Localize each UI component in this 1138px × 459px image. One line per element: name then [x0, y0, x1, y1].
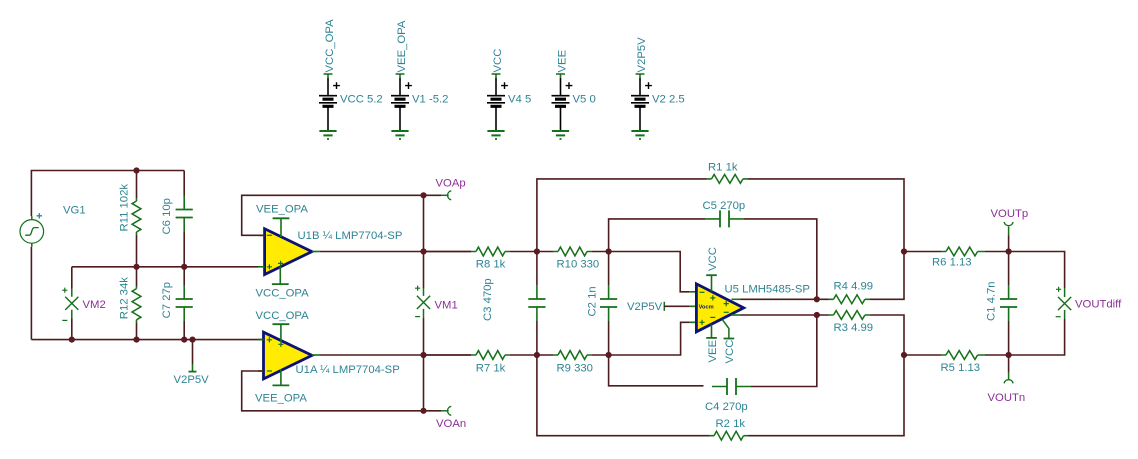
svg-text:VOAn: VOAn — [436, 418, 466, 430]
wire U1B feedback loop — [242, 195, 441, 235]
svg-text:U5 LMH5485-SP: U5 LMH5485-SP — [725, 283, 810, 295]
wire VG1 top to node row T — [31, 171, 184, 217]
fully differential amp U5 LMH5485-SP — [696, 283, 810, 332]
svg-text:R10 330: R10 330 — [557, 259, 600, 271]
U1A VCC_OPA power pin (top) — [256, 310, 310, 342]
svg-text:VEE_OPA: VEE_OPA — [256, 204, 308, 216]
svg-text:VCC_OPA: VCC_OPA — [324, 19, 336, 73]
svg-text:R7 1k: R7 1k — [476, 362, 506, 374]
resistor R12 34k — [118, 267, 141, 340]
wire U5 output+ row — [732, 298, 829, 300]
resistor R7 1k — [424, 351, 537, 375]
terminal V2P5V (bottom left) — [174, 340, 210, 386]
svg-text:VEE: VEE — [557, 49, 569, 72]
op-amp U1A 1/4 LMP7704-SP — [264, 332, 400, 379]
svg-text:V2P5V: V2P5V — [627, 301, 663, 313]
battery V1 (net VEE_OPA) -5.2V — [391, 20, 448, 139]
svg-text:V5 0: V5 0 — [573, 94, 596, 106]
svg-text:R5 1.13: R5 1.13 — [941, 362, 981, 374]
wire U1A output row — [312, 354, 471, 356]
svg-text:VEE: VEE — [707, 339, 719, 362]
wire VM1 column lower — [423, 318, 425, 355]
svg-text:VCC_OPA: VCC_OPA — [256, 288, 310, 300]
wire node D to U5 + input — [609, 322, 689, 355]
resistor R9 330 — [537, 351, 609, 375]
svg-text:VOUTdiff: VOUTdiff — [1075, 299, 1122, 311]
voltage generator VG1 — [20, 205, 86, 247]
svg-text:V1 -5.2: V1 -5.2 — [412, 94, 448, 106]
voltmeter VM1 — [415, 286, 458, 318]
resistor R2 1k (bottom feedback) — [537, 355, 904, 440]
terminal VOAp — [436, 178, 466, 200]
terminal VOUTn — [988, 355, 1026, 404]
junction dots feedback section — [534, 248, 907, 358]
battery V5 (net VEE) 0V — [552, 49, 596, 139]
svg-text:V2P5V: V2P5V — [174, 374, 210, 386]
junction dots op-amp section — [420, 192, 426, 414]
resistor R5 1.13 — [904, 351, 1009, 375]
svg-text:V4 5: V4 5 — [508, 94, 531, 106]
terminal V2P5V (U5 Vocm) — [627, 292, 696, 323]
svg-text:VM1: VM1 — [435, 299, 458, 311]
svg-text:C7 27p: C7 27p — [161, 282, 173, 318]
svg-text:U1A ¼ LMP7704-SP: U1A ¼ LMP7704-SP — [296, 364, 400, 376]
svg-text:VEE_OPA: VEE_OPA — [396, 20, 408, 72]
battery V4 (net VCC) 5V — [487, 49, 531, 139]
svg-text:R1 1k: R1 1k — [708, 162, 738, 174]
svg-text:VOAp: VOAp — [436, 178, 466, 190]
wire VM2 column lower — [71, 319, 73, 340]
resistor R10 330 — [537, 247, 609, 271]
capacitor C5 270p (top feedback) — [609, 200, 817, 299]
wire middle row (to U1B + input) — [72, 266, 258, 268]
battery V2 (net V2P5V) 2.5V — [631, 37, 685, 139]
wire VM2 column upper — [71, 267, 73, 289]
capacitor C4 270p (bottom feedback) — [609, 315, 817, 413]
terminal VOAn — [436, 406, 466, 430]
svg-text:VCC: VCC — [724, 340, 736, 364]
junction dots left section — [69, 167, 196, 342]
resistor R4 4.99 — [829, 252, 905, 304]
svg-text:R3 4.99: R3 4.99 — [834, 322, 874, 334]
terminal VOUTp — [991, 208, 1029, 252]
U1A input pin stubs — [258, 340, 264, 371]
voltmeter VM2 — [62, 288, 106, 321]
svg-text:VM2: VM2 — [83, 299, 106, 311]
svg-text:R6 1.13: R6 1.13 — [932, 256, 972, 268]
svg-text:V2P5V: V2P5V — [636, 37, 648, 73]
U5 VEE power pin (bottom) — [706, 324, 719, 362]
svg-text:VCC: VCC — [492, 49, 504, 73]
junction dots output section — [1006, 248, 1012, 358]
U1B VCC_OPA power pin (bottom) — [256, 266, 310, 299]
svg-text:R2 1k: R2 1k — [716, 418, 746, 430]
svg-text:VG1: VG1 — [63, 205, 86, 217]
U5 VCC power pin (top) — [706, 247, 719, 291]
wire VG1 bottom to bottom rail — [30, 247, 32, 340]
capacitor C1 4.7n — [986, 252, 1018, 356]
svg-text:VCC: VCC — [707, 247, 719, 271]
capacitor C2 1n — [587, 252, 618, 356]
svg-text:R12 34k: R12 34k — [118, 277, 130, 319]
wire U1B output row — [312, 251, 471, 253]
resistor R3 4.99 — [829, 311, 905, 355]
wire VM1 column upper — [423, 195, 425, 288]
svg-text:C3 470p: C3 470p — [482, 278, 494, 321]
battery VCC (net VCC_OPA) 5.2V — [319, 19, 383, 139]
capacitor C3 470p — [482, 252, 546, 356]
wire node B to U5 - input — [609, 252, 689, 292]
svg-text:VEE_OPA: VEE_OPA — [255, 393, 307, 405]
U1B VEE_OPA power pin (top) — [256, 204, 308, 238]
svg-text:C6 10p: C6 10p — [161, 198, 173, 234]
svg-text:C4 270p: C4 270p — [705, 401, 748, 413]
U1A VEE_OPA power pin (bottom) — [255, 370, 307, 405]
wire U1A output node to feedback row — [423, 355, 425, 411]
wire bottom rail — [31, 339, 263, 341]
capacitor C7 27p — [161, 267, 193, 340]
svg-text:C2 1n: C2 1n — [587, 286, 599, 316]
svg-text:VCC 5.2: VCC 5.2 — [340, 94, 383, 106]
svg-text:VCC_OPA: VCC_OPA — [256, 310, 310, 322]
capacitor C6 10p — [161, 171, 193, 267]
svg-text:R9 330: R9 330 — [557, 362, 593, 374]
svg-text:U1B ¼ LMP7704-SP: U1B ¼ LMP7704-SP — [298, 230, 403, 242]
svg-text:VOUTp: VOUTp — [991, 208, 1029, 220]
U5 VCC power-down pin (bottom right) — [723, 320, 737, 364]
svg-text:R8 1k: R8 1k — [476, 259, 506, 271]
svg-text:R11 102k: R11 102k — [118, 184, 130, 232]
svg-text:C5 270p: C5 270p — [703, 200, 746, 212]
wire U1A feedback loop — [242, 371, 441, 411]
resistor R11 102k — [118, 171, 141, 267]
resistor R1 1k (top feedback) — [537, 162, 904, 252]
svg-text:R4 4.99: R4 4.99 — [834, 281, 874, 293]
op-amp U1B 1/4 LMP7704-SP — [265, 229, 403, 275]
voltmeter VOUTdiff — [1009, 252, 1123, 356]
resistor R6 1.13 — [904, 247, 1009, 268]
svg-text:Vocm: Vocm — [699, 305, 714, 311]
wire U5 output- row — [732, 314, 829, 316]
svg-text:C1 4.7n: C1 4.7n — [986, 281, 998, 321]
U1B input pin stubs — [258, 235, 265, 266]
svg-text:V2 2.5: V2 2.5 — [652, 94, 685, 106]
svg-text:VOUTn: VOUTn — [988, 392, 1026, 404]
resistor R8 1k — [424, 247, 537, 271]
